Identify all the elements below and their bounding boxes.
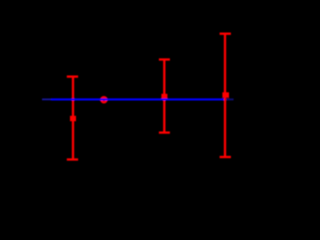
data point 1 error bar bottom cap bbox=[67, 158, 78, 160]
data point 4 square marker bbox=[222, 92, 229, 97]
data point 1 square marker bbox=[70, 116, 76, 121]
fit line bright blue segment bbox=[51, 98, 224, 100]
fit line faint right extension bbox=[226, 98, 233, 100]
fit line faint left extension bbox=[42, 98, 51, 100]
data point 3 error bar top cap bbox=[159, 58, 170, 60]
data point 3 error bar bottom cap bbox=[159, 131, 170, 133]
data point 4 error bar bottom cap bbox=[220, 156, 231, 158]
data point 1 error bar vertical line bbox=[72, 77, 74, 160]
data point 2 open circle marker bbox=[101, 97, 106, 102]
data point 1 error bar top cap bbox=[67, 75, 78, 77]
data point 3 error bar vertical line bbox=[163, 60, 165, 133]
data point 4 error bar vertical line bbox=[224, 34, 226, 157]
data point 4 error bar top cap bbox=[220, 33, 231, 35]
data point 3 square marker bbox=[161, 94, 167, 99]
